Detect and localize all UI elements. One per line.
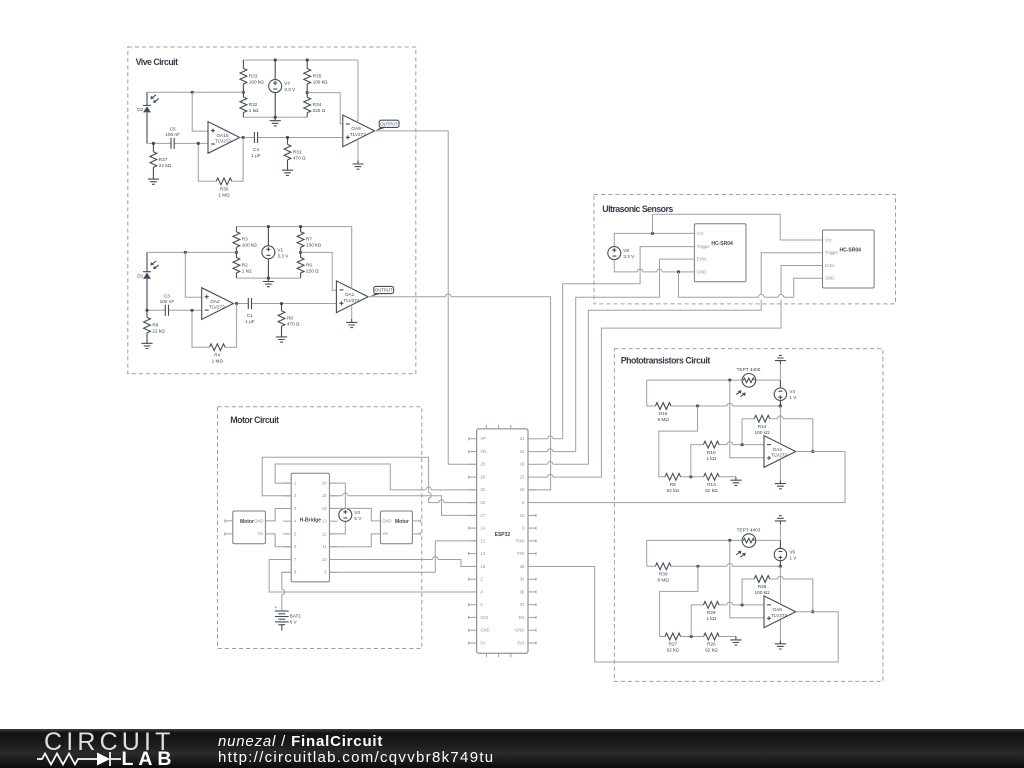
svg-text:RX0: RX0 [516, 538, 525, 543]
svg-text:V6: V6 [789, 550, 795, 555]
wire ground rail extension to HC-SR04 #2 GND [679, 272, 794, 297]
ground below OA4 [775, 480, 786, 489]
voltage source V8 wiring [614, 233, 694, 246]
wire bottom rail (Vive top) [243, 116, 307, 118]
resistor R29 [703, 602, 719, 622]
right motor M2 [380, 511, 420, 544]
junction [242, 91, 245, 94]
ground below OA1 [346, 319, 357, 328]
junction [274, 116, 277, 119]
ultrasonic module HC-SR04 #2 [823, 230, 875, 288]
wire OA10 feedback loop [198, 137, 243, 181]
svg-text:R34: R34 [313, 102, 322, 107]
svg-text:+: + [275, 605, 278, 610]
wire jog R30 to R27 row [660, 566, 698, 636]
svg-text:3V3: 3V3 [517, 640, 525, 645]
ground below V1 [263, 278, 274, 287]
svg-text:VN: VN [480, 449, 486, 454]
svg-text:13: 13 [322, 519, 327, 524]
wire OA9 negative supply to ground [357, 139, 359, 160]
capacitor C5 [165, 126, 180, 149]
wire H-Bridge pin 11 to right motor Vin [329, 534, 380, 547]
svg-text:22: 22 [520, 449, 525, 454]
wire left motor Vin to H-Bridge pin 6 [265, 534, 291, 547]
svg-text:1 MΩ: 1 MΩ [212, 358, 224, 363]
wire R28 feedback row (photo bottom) [742, 579, 813, 612]
svg-text:R8: R8 [287, 316, 293, 321]
wire collector rail (photo top) [779, 364, 781, 380]
wire D1 cathode lead [146, 252, 148, 310]
wire R16 row (photo top) [647, 405, 781, 407]
svg-text:100 kΩ: 100 kΩ [306, 243, 321, 248]
svg-text:100 kΩ: 100 kΩ [755, 590, 770, 595]
svg-text:R35: R35 [313, 74, 322, 79]
junction [811, 610, 814, 613]
junction [696, 565, 699, 568]
svg-text:OUTPUT: OUTPUT [380, 122, 398, 127]
wire R14 feedback row (photo top) [742, 419, 813, 452]
svg-text:100 kΩ: 100 kΩ [249, 79, 264, 84]
resistor R30 [655, 563, 671, 583]
junction [235, 302, 238, 305]
wire V3 to H-Bridge pin 12 [329, 521, 345, 534]
wire Vcc to second HC-SR04 [653, 214, 823, 240]
svg-text:R9: R9 [152, 322, 158, 327]
wire OA4 output to ESP32 pin 5 [536, 451, 845, 502]
resistor R10 [703, 441, 719, 461]
wire H-Bridge pin 9 to ESP32 pin 12 [329, 541, 476, 572]
wire V7 stems [274, 60, 276, 117]
wire top supply rail (Vive bottom) [236, 226, 351, 228]
junction [267, 277, 270, 280]
left motor M1 [225, 511, 266, 544]
svg-text:EN: EN [519, 615, 525, 620]
voltage source V1 [262, 246, 289, 259]
svg-text:100 nF: 100 nF [165, 132, 180, 137]
junction [811, 450, 814, 453]
svg-text:VP: VP [480, 436, 486, 441]
resistor R2 [233, 252, 252, 278]
svg-text:R28: R28 [758, 584, 767, 589]
junction [190, 309, 193, 312]
voltage source V8 [608, 247, 635, 260]
svg-text:R7: R7 [306, 237, 312, 242]
photodiode D2 [137, 95, 159, 113]
svg-text:GND: GND [480, 628, 489, 633]
svg-text:C1: C1 [247, 313, 253, 318]
svg-text:HC-SR04: HC-SR04 [711, 241, 733, 247]
svg-text:26: 26 [480, 475, 485, 480]
op-amp OA10 [208, 122, 240, 154]
junction [779, 404, 782, 407]
svg-text:OA8: OA8 [773, 607, 783, 612]
wire D1 to C3 to OA2 inverting input [147, 309, 202, 311]
junction [728, 379, 731, 382]
junction [184, 251, 187, 254]
resistor R36 [216, 178, 232, 198]
svg-text:1 V: 1 V [789, 395, 797, 400]
junction [741, 443, 744, 446]
svg-text:TLV272: TLV272 [771, 453, 787, 458]
svg-text:10: 10 [322, 557, 327, 562]
svg-text:12: 12 [480, 538, 485, 543]
svg-text:1 V: 1 V [789, 556, 797, 561]
svg-text:33: 33 [480, 500, 485, 505]
svg-text:4: 4 [480, 589, 483, 594]
svg-text:8: 8 [294, 570, 297, 575]
wire OA9 positive supply from rail [357, 60, 359, 123]
svg-text:Echo: Echo [697, 257, 707, 262]
wire OA1 negative supply to ground [351, 305, 353, 319]
op-amp OA9 [343, 115, 375, 147]
svg-text:R16: R16 [659, 411, 668, 416]
svg-text:15: 15 [322, 493, 327, 498]
svg-text:TEPT 4403: TEPT 4403 [737, 527, 761, 532]
svg-text:GND: GND [254, 518, 263, 523]
wire H-Bridge pin 3 to left motor GND [265, 509, 291, 521]
svg-text:TLV272: TLV272 [343, 298, 359, 303]
wire OA4 positive supply [779, 406, 781, 444]
wire R10 row to OA4 inverting input [691, 445, 764, 477]
ground (inverted) bottom photUS circuit [775, 516, 786, 525]
svg-text:35: 35 [520, 564, 525, 569]
wire R27/R26 row (photo bottom) [660, 636, 736, 638]
svg-text:100 kΩ: 100 kΩ [313, 80, 328, 85]
svg-text:11: 11 [322, 544, 327, 549]
svg-text:R4: R4 [214, 352, 220, 357]
resistor R33 [240, 60, 264, 92]
svg-text:Vin: Vin [257, 531, 264, 536]
wire OA8 negative supply to ground [779, 620, 781, 641]
resistor R37 [150, 143, 172, 175]
resistor R26 [704, 633, 720, 653]
junction [677, 270, 680, 273]
wire H-Bridge pin 1 to ESP32 pin 32 [275, 464, 477, 490]
ground below R31 [282, 167, 293, 176]
svg-text:8 MΩ: 8 MΩ [658, 578, 670, 583]
junction [690, 635, 693, 638]
wire HC-SR04 #2 Echo to ESP32 pin 23 [601, 266, 822, 478]
svg-text:HC-SR04: HC-SR04 [840, 247, 862, 253]
svg-text:ESP32: ESP32 [495, 532, 511, 538]
svg-text:Motor: Motor [395, 519, 409, 525]
wire HC-SR04 #2 GND [794, 278, 823, 297]
junction [696, 404, 699, 407]
wire H-Bridge pin 8 to battery BAT1 [282, 572, 291, 611]
svg-text:1 μF: 1 μF [245, 319, 255, 324]
svg-text:TLV272: TLV272 [209, 305, 225, 310]
svg-text:GND: GND [697, 269, 706, 274]
svg-text:LAB: LAB [122, 748, 175, 768]
wire OA8 positive supply [779, 566, 781, 604]
voltage source V7 [269, 80, 296, 93]
svg-text:1: 1 [294, 481, 297, 486]
junction [306, 58, 309, 61]
svg-text:R6: R6 [306, 262, 312, 267]
ground below V7 [270, 117, 281, 126]
svg-text:TLV272: TLV272 [215, 139, 231, 144]
svg-text:62 kΩ: 62 kΩ [705, 648, 718, 653]
svg-text:3.3 V: 3.3 V [277, 253, 289, 258]
svg-text:16: 16 [322, 481, 327, 486]
wire OA9 output [375, 130, 449, 132]
svg-text:V7: V7 [284, 81, 290, 86]
svg-text:23: 23 [520, 475, 525, 480]
wire OA10 output to C4 [240, 136, 343, 138]
svg-text:1 MΩ: 1 MΩ [218, 193, 230, 198]
op-amp OA1 [336, 281, 368, 313]
wire R8/R13 row (photo top) [659, 476, 736, 478]
svg-text:R30: R30 [659, 572, 668, 577]
wire R7/R6 tap to OA1 inverting input [301, 252, 337, 290]
svg-text:100 kΩ: 100 kΩ [755, 430, 770, 435]
svg-text:0: 0 [480, 602, 483, 607]
svg-text:H-Bridge: H-Bridge [300, 518, 321, 524]
resistor R16 [655, 403, 671, 423]
wire D2 to C5 to OA10 inverting input [147, 142, 208, 144]
svg-text:14: 14 [322, 506, 327, 511]
junction [235, 251, 238, 254]
svg-text:37: 37 [520, 602, 525, 607]
svg-text:470 Ω: 470 Ω [287, 322, 300, 327]
battery BAT1 [275, 605, 302, 631]
svg-text:R8: R8 [670, 482, 676, 487]
wire HC-SR04 #1 Trigger to ESP32 pin 21 [563, 247, 695, 439]
resistor R34 [304, 93, 326, 118]
resistor R4 [210, 344, 226, 364]
svg-text:22 kΩ: 22 kΩ [152, 328, 165, 333]
H-Bridge pin stubs [283, 483, 337, 572]
svg-text:6: 6 [294, 544, 297, 549]
svg-text:5: 5 [522, 500, 525, 505]
resistor R7 [297, 227, 321, 253]
svg-text:Vcc: Vcc [697, 231, 704, 236]
junction [741, 603, 744, 606]
resistor R8 [665, 473, 681, 493]
capacitor C4 [251, 132, 261, 158]
wire D2 cathode lead [146, 92, 148, 143]
junction [286, 136, 289, 139]
wire collector tap to OA8 non-inverting input [730, 540, 764, 618]
wire OA1 output to ESP32 pin 18 [368, 297, 550, 490]
op-amp OA8 [764, 596, 796, 628]
svg-text:V1: V1 [277, 247, 283, 252]
svg-text:100 kΩ: 100 kΩ [242, 243, 257, 248]
wire H-Bridge pin 14 to right motor GND [329, 508, 380, 521]
svg-text:TLV272: TLV272 [771, 613, 787, 618]
svg-text:TX0: TX0 [517, 551, 525, 556]
svg-text:C4: C4 [253, 147, 259, 152]
wire OA2 output to C1 [233, 303, 336, 305]
wire V6 stems [779, 540, 781, 566]
resistor R28 [754, 576, 770, 596]
svg-text:15: 15 [480, 564, 485, 569]
output flag OUTPUT [370, 286, 394, 296]
svg-text:13: 13 [480, 551, 485, 556]
svg-text:4: 4 [294, 519, 297, 524]
svg-text:Motor Circuit: Motor Circuit [230, 415, 279, 425]
svg-text:V3: V3 [354, 510, 360, 515]
ultrasonic module HC-SR04 #1 [694, 224, 746, 282]
capacitor C3 [160, 293, 175, 316]
microcontroller ESP32 [477, 429, 528, 653]
phototransistor TEPT 4400 [736, 367, 760, 397]
resistor R31 [284, 137, 306, 166]
wire R29 row to OA8 inverting input [691, 605, 764, 637]
wire HC-SR04 #1 Echo to ESP32 pin 22 [576, 259, 695, 452]
svg-text:25: 25 [480, 462, 485, 467]
svg-text:GND: GND [825, 276, 834, 281]
junction [274, 58, 277, 61]
section box Vive Circuit [128, 47, 416, 374]
wire D1 anode rail [147, 251, 236, 253]
svg-text:Vive Circuit: Vive Circuit [136, 57, 178, 67]
svg-text:1 kΩ: 1 kΩ [249, 108, 259, 113]
wire V1 stems [267, 227, 269, 279]
svg-text:OA4: OA4 [773, 447, 783, 452]
ground below R8 [276, 334, 287, 343]
svg-text:22 kΩ: 22 kΩ [159, 163, 172, 168]
svg-text:3.3 V: 3.3 V [623, 254, 635, 259]
svg-text:18: 18 [520, 487, 525, 492]
junction [145, 309, 148, 312]
wire H-Bridge pin 7 to ESP32 pin 4 [269, 560, 477, 593]
wire V4 stems [779, 380, 781, 406]
svg-text:Echo: Echo [825, 263, 835, 268]
svg-text:38: 38 [520, 589, 525, 594]
svg-text:3V3: 3V3 [480, 615, 488, 620]
svg-text:19: 19 [520, 462, 525, 467]
svg-text:Vin: Vin [382, 531, 389, 536]
svg-text:BAT1: BAT1 [290, 614, 302, 619]
svg-text:9: 9 [522, 526, 525, 531]
svg-text:TEPT 4400: TEPT 4400 [737, 367, 761, 372]
op-amp OA2 [202, 288, 234, 320]
ground below R37 [148, 176, 159, 185]
svg-text:OA1: OA1 [345, 292, 355, 297]
section box Phototransistors Circuit [614, 349, 883, 682]
junction [191, 91, 194, 94]
svg-text:220 Ω: 220 Ω [306, 268, 319, 273]
junction [280, 302, 283, 305]
wire OA8 output to ESP32 pin 35 [536, 567, 838, 663]
ESP32 pin stubs [469, 425, 536, 657]
svg-text:2: 2 [294, 493, 297, 498]
svg-text:10: 10 [520, 513, 525, 518]
ground (inverted) top phottransistor circuit [775, 355, 786, 364]
svg-text:GND: GND [382, 518, 391, 523]
svg-text:14: 14 [480, 526, 485, 531]
wire OA2 feedback loop [192, 304, 237, 348]
ground below R9 [141, 340, 152, 349]
output flag OUTPUT [376, 120, 399, 131]
svg-text:27: 27 [480, 513, 485, 518]
svg-text:V8: V8 [623, 248, 629, 253]
resistor R13 [704, 473, 720, 493]
svg-text:Vcc: Vcc [825, 237, 832, 242]
voltage source V6 [774, 548, 797, 560]
wire bottom rail (Vive bottom) [236, 277, 300, 279]
svg-text:1 kΩ: 1 kΩ [706, 616, 716, 621]
svg-text:12: 12 [322, 531, 327, 536]
junction [197, 142, 200, 145]
wire H-Bridge pin 10 to ESP32 pin 15 [329, 560, 476, 567]
svg-text:V4: V4 [789, 389, 795, 394]
resistor R8 [278, 304, 300, 334]
junction [299, 225, 302, 228]
photodiode D1 [137, 261, 159, 279]
voltage source V4 [774, 388, 797, 400]
svg-text:OA9: OA9 [351, 126, 361, 131]
wire OA4 negative supply to ground [779, 460, 781, 481]
svg-text:1 μF: 1 μF [251, 153, 261, 158]
junction [299, 251, 302, 254]
ground below OA9 [352, 161, 363, 170]
svg-text:2: 2 [480, 577, 483, 582]
junction [152, 142, 155, 145]
svg-text:21: 21 [520, 436, 525, 441]
svg-text:OA2: OA2 [210, 299, 220, 304]
junction [689, 475, 692, 478]
resistor R32 [240, 92, 259, 117]
phototransistor TEPT 4403 [736, 527, 760, 557]
svg-text:5: 5 [294, 531, 297, 536]
junction [651, 232, 654, 235]
wire OA2 non-inverting input tap [185, 252, 201, 297]
svg-text:32: 32 [480, 487, 485, 492]
wire ground rail from V8 to HC-SR04 #1 GND [614, 260, 694, 272]
svg-text:8 MΩ: 8 MΩ [658, 417, 670, 422]
svg-text:100 nF: 100 nF [160, 299, 175, 304]
wire OA10 non-inverting input tap [192, 92, 208, 131]
svg-text:R37: R37 [159, 157, 168, 162]
svg-text:3: 3 [294, 506, 297, 511]
op-amp OA4 [764, 436, 796, 468]
wire HC-SR04 #2 Trigger to ESP32 pin 19 [588, 253, 822, 464]
wire R30 row (photo bottom) [647, 565, 781, 567]
wire left drop to R16 row [646, 380, 648, 406]
svg-text:R26: R26 [707, 642, 716, 647]
resistor R35 [304, 60, 328, 93]
svg-text:34: 34 [520, 577, 525, 582]
svg-text:5V: 5V [480, 640, 485, 645]
svg-text:R3: R3 [242, 237, 248, 242]
svg-text:OA10: OA10 [217, 133, 229, 138]
H-Bridge U1 [291, 473, 329, 582]
wire collector tap to OA4 non-inverting input [730, 380, 764, 458]
svg-text:Trigger: Trigger [697, 244, 711, 249]
wire H-Bridge pin 2 to ESP32 pin 33 [262, 457, 477, 502]
svg-text:C5: C5 [170, 126, 176, 131]
svg-text:Phototransistors Circuit: Phototransistors Circuit [621, 356, 711, 366]
svg-text:R29: R29 [707, 610, 716, 615]
wire OA1 positive supply from rail [351, 227, 353, 289]
section box Ultrasonic Sensors [594, 195, 896, 304]
resistor R3 [233, 227, 257, 253]
svg-text:R14: R14 [758, 424, 767, 429]
wire top supply rail (Vive top) [243, 59, 358, 61]
svg-text:R13: R13 [707, 482, 716, 487]
svg-text:62 kΩ: 62 kΩ [667, 648, 680, 653]
svg-text:6 V: 6 V [290, 620, 298, 625]
voltage source V3 [339, 508, 362, 521]
svg-text:R27: R27 [668, 642, 677, 647]
junction [242, 136, 245, 139]
junction [728, 539, 731, 542]
svg-text:1 kΩ: 1 kΩ [706, 456, 716, 461]
svg-text:220 Ω: 220 Ω [313, 108, 326, 113]
wire jog R16 to R8 row [659, 406, 698, 477]
